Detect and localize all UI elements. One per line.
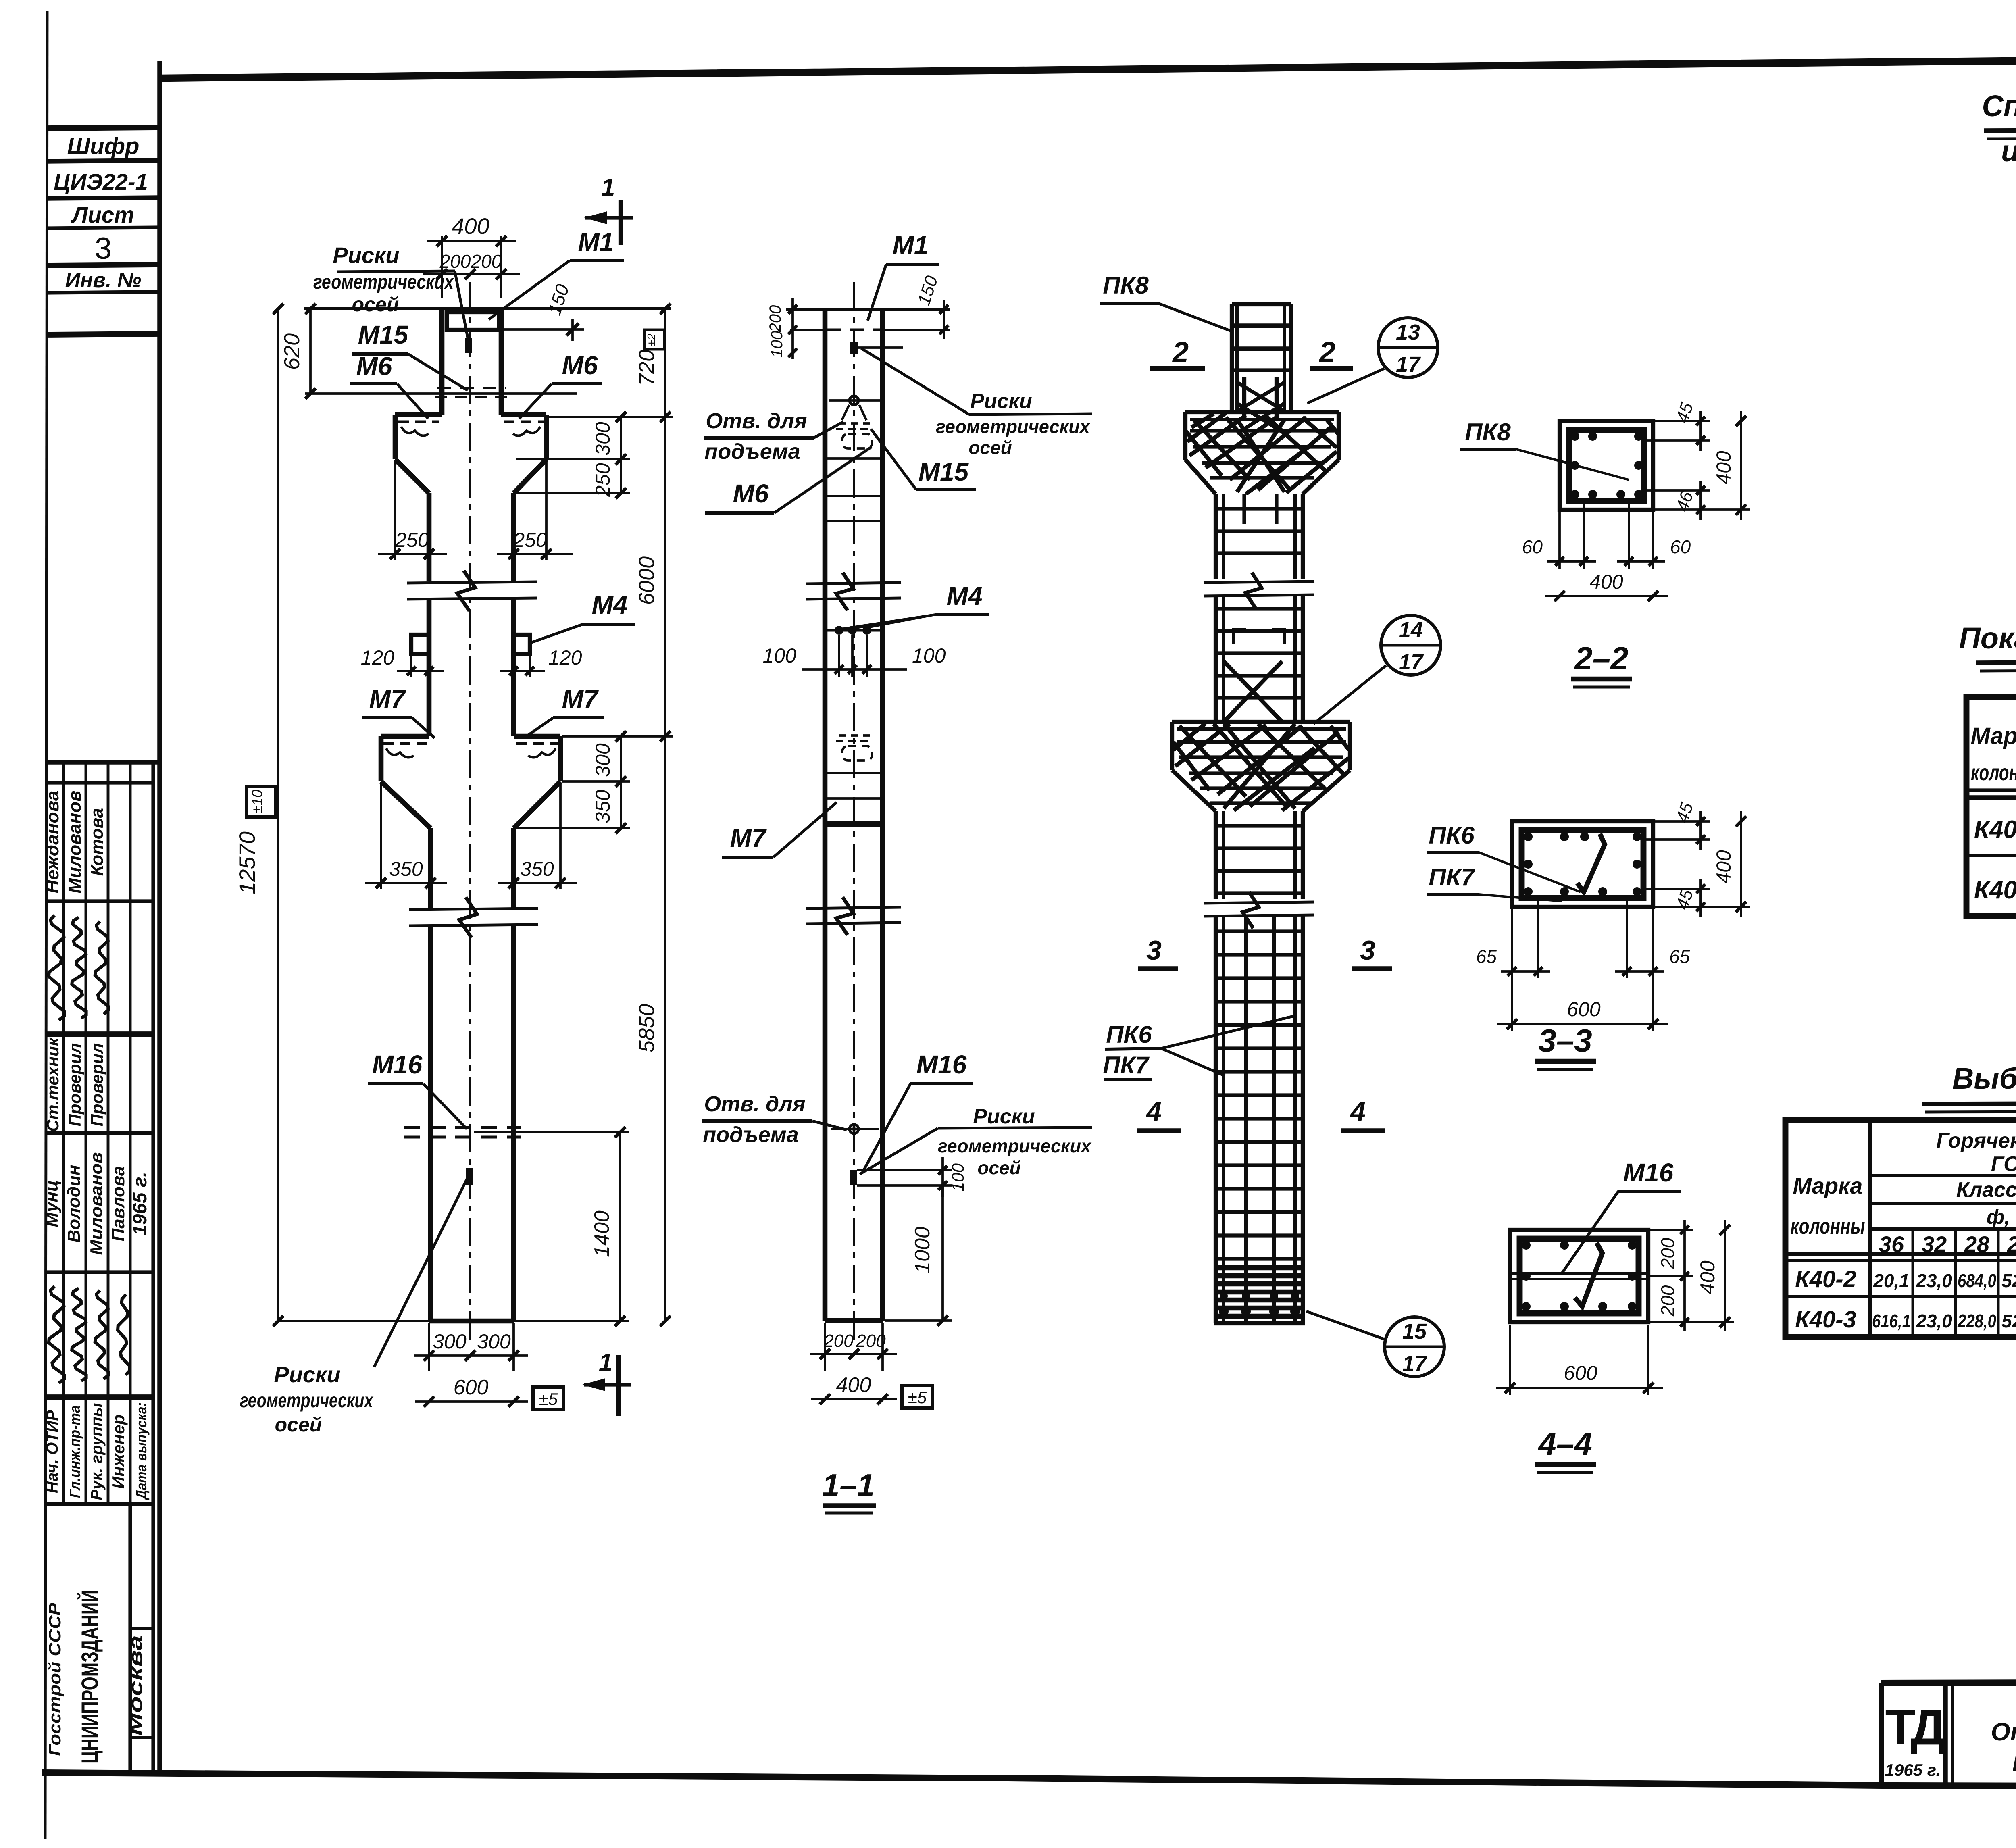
section 3-3 dim 400 right bbox=[1655, 906, 1750, 908]
section 4-4 bent bar bbox=[1575, 1243, 1602, 1306]
svg-text:Риски: Риски bbox=[274, 1362, 340, 1387]
rebar cage top outline bbox=[1232, 302, 1291, 306]
section 2-2 dim 400 bottom bbox=[1545, 595, 1668, 597]
svg-text:Шифр: Шифр bbox=[67, 133, 140, 159]
signature block band line bbox=[46, 1270, 153, 1274]
svg-text:Риски: Риски bbox=[970, 390, 1032, 413]
shaft below console 2 bbox=[428, 828, 433, 908]
svg-text:200: 200 bbox=[856, 1331, 886, 1351]
section 3-3 rebar dots bbox=[1524, 832, 1533, 841]
rebar ties middle bbox=[1216, 607, 1303, 610]
section 2-2 dim 400 right bbox=[1655, 508, 1750, 511]
dim 200 200 top bbox=[423, 273, 520, 275]
svg-text:400: 400 bbox=[836, 1373, 871, 1397]
svg-text:350: 350 bbox=[389, 858, 423, 880]
embed plate M4 left bbox=[411, 635, 429, 654]
dim 300 300 bottom bbox=[428, 1323, 430, 1371]
section 3-3 dim 600 bottom bbox=[1511, 978, 1513, 1031]
table 3 title underline bbox=[1922, 1102, 2016, 1104]
title block top border bbox=[1881, 1681, 2016, 1683]
svg-text:120: 120 bbox=[361, 646, 395, 669]
filled embed band bbox=[826, 821, 882, 827]
svg-text:600: 600 bbox=[1564, 1362, 1597, 1384]
svg-text:М4: М4 bbox=[947, 581, 983, 610]
lifting hole symbol top bbox=[850, 396, 858, 405]
svg-text:ф, мм: ф, мм bbox=[1987, 1206, 2016, 1228]
svg-text:100: 100 bbox=[763, 644, 797, 667]
svg-text:200: 200 bbox=[1657, 1285, 1678, 1317]
svg-text:осей: осей bbox=[968, 437, 1012, 458]
table 3 data row divider bbox=[1785, 1295, 2016, 1298]
rebar bottom hooks bbox=[1219, 1306, 1229, 1316]
rebar cage neck X bracing bbox=[1237, 382, 1285, 411]
table 2 title underline bbox=[1976, 661, 2016, 663]
svg-text:Нежданова: Нежданова bbox=[43, 791, 62, 894]
svg-text:65: 65 bbox=[1476, 946, 1497, 967]
section 4-4 M16 channel lines bbox=[1510, 1272, 1648, 1275]
dim 300 console2 right bbox=[562, 780, 630, 783]
column top edge with extension line bbox=[304, 307, 671, 310]
svg-text:2: 2 bbox=[1172, 336, 1189, 369]
svg-text:4: 4 bbox=[1350, 1096, 1366, 1127]
svg-text:М16: М16 bbox=[372, 1050, 423, 1079]
section 3-3 dim 45 top bbox=[1655, 820, 1710, 823]
svg-text:Опалубочный и арматурный черте: Опалубочный и арматурный чертежи. bbox=[1991, 1718, 2016, 1746]
leader to circle 14/17 bbox=[1314, 665, 1386, 724]
dim 120 left at M4 bbox=[410, 656, 412, 677]
console 2 top step bbox=[381, 734, 429, 739]
svg-text:ПК7: ПК7 bbox=[1103, 1052, 1150, 1079]
leader to circle 15/17 bbox=[1306, 1311, 1385, 1340]
section 4-4 dim 200 bottom bbox=[1650, 1275, 1693, 1277]
stamp divider bbox=[47, 198, 160, 198]
svg-text:1000: 1000 bbox=[911, 1227, 934, 1273]
Moskva cell top line bbox=[130, 1627, 153, 1630]
svg-text:осей: осей bbox=[977, 1157, 1020, 1178]
table 3 frame bbox=[1785, 1120, 2016, 1337]
rebar console 1 outline bbox=[1185, 410, 1339, 414]
neck extension line at 976 bbox=[305, 392, 577, 395]
svg-text:ПК6: ПК6 bbox=[1106, 1021, 1152, 1048]
dim 100 at risk mark bbox=[857, 1169, 952, 1171]
svg-text:1: 1 bbox=[601, 174, 615, 202]
section mark 1 top bbox=[619, 200, 623, 245]
section 2-2 outer square bbox=[1560, 421, 1653, 510]
svg-text:Госстрой СССР: Госстрой СССР bbox=[45, 1602, 64, 1756]
dim 720 right with tolerance box bbox=[664, 309, 666, 417]
svg-text:Володин: Володин bbox=[64, 1165, 84, 1243]
extension line console2 top right bbox=[562, 735, 673, 738]
svg-text:Проверил: Проверил bbox=[65, 1043, 84, 1127]
table 2 row divider col1 bbox=[1966, 854, 2016, 857]
signature block band line bbox=[46, 1131, 153, 1135]
column K40 front view outline top section bbox=[439, 309, 445, 415]
svg-text:Марка: Марка bbox=[1793, 1173, 1863, 1198]
stamp empty box bottom line bbox=[47, 334, 160, 335]
extension line console1 top right bbox=[548, 416, 673, 418]
rebar shaft middle segment bbox=[1214, 595, 1218, 722]
svg-text:Марка: Марка bbox=[1970, 723, 2016, 749]
svg-text:620: 620 bbox=[280, 333, 304, 370]
console 2 outer edges bbox=[379, 736, 384, 781]
svg-text:М6: М6 bbox=[356, 352, 392, 381]
dim 400 bottom side bbox=[811, 1398, 897, 1400]
svg-text:400: 400 bbox=[452, 213, 489, 239]
svg-text:подъема: подъема bbox=[703, 1123, 799, 1147]
column center axis bbox=[469, 282, 471, 1343]
embed M7 dashed marks bbox=[839, 734, 870, 737]
svg-text:3: 3 bbox=[1146, 935, 1162, 966]
signature block band line bbox=[46, 899, 153, 903]
table 1 title underline bbox=[1984, 129, 2016, 131]
dim 120 right at M4 bbox=[512, 656, 515, 677]
svg-text:120: 120 bbox=[548, 646, 582, 669]
svg-text:Показатели расхода материалов: Показатели расхода материалов bbox=[2012, 1749, 2016, 1777]
svg-text:Милованов: Милованов bbox=[87, 1152, 106, 1255]
svg-text:Горячекатаная арматурная ста: Горячекатаная арматурная сталь bbox=[1936, 1129, 2016, 1152]
dim 6000 right bbox=[664, 417, 666, 736]
svg-text:К40-2: К40-2 bbox=[1795, 1266, 1856, 1292]
svg-text:300: 300 bbox=[591, 422, 614, 456]
svg-text:17: 17 bbox=[1402, 1352, 1428, 1376]
svg-text:4–4: 4–4 bbox=[1537, 1426, 1592, 1462]
rebar shaft inner bars upper bbox=[1242, 494, 1246, 524]
tolerance box 5 side bbox=[902, 1385, 933, 1408]
svg-text:23,0: 23,0 bbox=[1916, 1310, 1952, 1331]
svg-text:200: 200 bbox=[766, 305, 784, 333]
dim 350 left below console2 bbox=[380, 784, 382, 889]
shaft between breaks bbox=[427, 598, 432, 736]
dim 600 bottom bbox=[415, 1400, 528, 1403]
svg-text:200: 200 bbox=[439, 251, 471, 272]
embed M1 dashed line bbox=[827, 329, 881, 331]
rebar console 2 reverse diagonals bbox=[1173, 724, 1349, 806]
svg-text:подъема: подъема bbox=[704, 440, 800, 464]
svg-text:350: 350 bbox=[591, 790, 614, 823]
signature block band line bbox=[46, 1502, 153, 1506]
rebar console 1 reverse diagonals bbox=[1186, 416, 1343, 490]
row dividers upper section bbox=[62, 762, 65, 1504]
signature block frame bbox=[46, 760, 160, 765]
svg-text:300: 300 bbox=[433, 1330, 467, 1353]
table 3 diameter dividers A-III bbox=[1912, 1229, 1914, 1337]
table 3 marka kolonny divider bbox=[1868, 1120, 1872, 1337]
embed plate M1 bbox=[447, 312, 499, 330]
section 3-3 outer rectangle bbox=[1512, 821, 1653, 907]
svg-text:20,1: 20,1 bbox=[1873, 1270, 1910, 1291]
left stamp column right border bbox=[157, 61, 162, 1774]
svg-text:1: 1 bbox=[599, 1349, 612, 1377]
section 3-3 bent bar bbox=[1577, 834, 1605, 892]
svg-text:Москва: Москва bbox=[125, 1635, 146, 1736]
svg-text:300: 300 bbox=[591, 743, 614, 777]
break symbol 2 bbox=[409, 908, 538, 910]
svg-text:720: 720 bbox=[635, 350, 659, 386]
svg-text:1400: 1400 bbox=[590, 1210, 614, 1257]
console 1 chamfers bbox=[395, 459, 429, 493]
tolerance box 5 bottom bbox=[533, 1387, 564, 1410]
svg-text:600: 600 bbox=[1567, 998, 1601, 1021]
section 3-3 dim 45 bottom bbox=[1645, 888, 1710, 890]
svg-text:4: 4 bbox=[1145, 1096, 1162, 1127]
svg-text:12570: 12570 bbox=[234, 831, 260, 894]
svg-text:250: 250 bbox=[591, 463, 614, 497]
svg-text:60: 60 bbox=[1522, 536, 1543, 557]
svg-text:М6: М6 bbox=[562, 351, 598, 380]
section 2-2 dim 46 bottom bbox=[1646, 489, 1710, 492]
callout circle 13/17 bbox=[1378, 318, 1438, 377]
svg-text:Риски: Риски bbox=[333, 242, 399, 268]
section mark 1 bottom bbox=[616, 1355, 621, 1416]
embed M16 dashed band bbox=[404, 1126, 521, 1129]
sheet left edge line bbox=[45, 11, 47, 1839]
thin tie line bbox=[825, 520, 883, 522]
section 4-4 dim 200 top bbox=[1650, 1229, 1693, 1231]
callout circle 15/17 bbox=[1385, 1317, 1444, 1377]
rebar console 2 horizontal bars bbox=[1177, 740, 1346, 744]
stamp divider bbox=[47, 227, 160, 228]
svg-text:Милованов: Милованов bbox=[65, 791, 85, 894]
svg-text:М15: М15 bbox=[358, 320, 409, 349]
console 2 chamfers bbox=[381, 781, 431, 828]
svg-text:Инженер: Инженер bbox=[109, 1415, 128, 1489]
svg-text:М7: М7 bbox=[730, 823, 767, 852]
svg-text:400: 400 bbox=[1712, 451, 1735, 485]
table 3 line under f mm bbox=[1870, 1227, 2016, 1231]
svg-text:52,4: 52,4 bbox=[2001, 1270, 2016, 1291]
dim 12570 left overall bbox=[277, 309, 279, 1321]
svg-text:52,4: 52,4 bbox=[2001, 1310, 2016, 1331]
rebar console 1 horizontal bars bbox=[1190, 429, 1334, 432]
svg-text:Выборка стали на одну ко: Выборка стали на одну колонну, кг bbox=[1952, 1062, 2016, 1095]
table 3 line under hot-rolled header bbox=[1870, 1174, 2016, 1177]
svg-text:200: 200 bbox=[823, 1331, 854, 1351]
svg-text:2–2: 2–2 bbox=[1574, 640, 1628, 676]
svg-text:250: 250 bbox=[513, 529, 547, 551]
signature block band line thick bbox=[46, 1394, 153, 1400]
svg-text:изделий на одну колонну: изделий на одну колонну bbox=[2001, 134, 2016, 168]
stamp divider bbox=[47, 160, 160, 161]
thin tie line bbox=[825, 797, 883, 800]
svg-text:ТД: ТД bbox=[1885, 1700, 1946, 1755]
rebar ties bottom segment bbox=[1216, 929, 1303, 933]
dim 250 console right lower bbox=[620, 459, 622, 493]
rebar shaft below console 1 bbox=[1214, 494, 1218, 579]
divider before Moskva cell bbox=[128, 1504, 132, 1774]
svg-text:Проверил: Проверил bbox=[87, 1043, 106, 1127]
svg-text:228,0: 228,0 bbox=[1957, 1310, 1996, 1331]
section 4-4 dim 400 right bbox=[1650, 1321, 1734, 1323]
svg-text:Рук. группы: Рук. группы bbox=[88, 1403, 106, 1500]
svg-text:Ст.техник: Ст.техник bbox=[43, 1037, 62, 1132]
rebar cage top ties bbox=[1232, 323, 1291, 328]
svg-text:3–3: 3–3 bbox=[1538, 1023, 1592, 1058]
shaft lower part bbox=[428, 925, 433, 1321]
Moskva cell bottom line bbox=[130, 1736, 153, 1739]
svg-text:ГОСТ 5781-61: ГОСТ 5781-61 bbox=[1991, 1152, 2016, 1176]
svg-text:100: 100 bbox=[912, 644, 946, 667]
side view top edge with extensions bbox=[786, 308, 950, 311]
svg-text:Нач. ОТИР: Нач. ОТИР bbox=[44, 1410, 61, 1493]
rebar console 1 diagonal hatch bbox=[1187, 413, 1338, 494]
svg-text:М4: М4 bbox=[592, 590, 628, 619]
dim 300 console right bbox=[620, 417, 622, 459]
svg-text:±5: ±5 bbox=[539, 1390, 558, 1408]
svg-text:М16: М16 bbox=[1623, 1158, 1674, 1187]
svg-text:684,0: 684,0 bbox=[1958, 1270, 1996, 1291]
svg-text:ПК6: ПК6 bbox=[1429, 822, 1475, 849]
svg-text:Риски: Риски bbox=[973, 1105, 1035, 1128]
axis risk mark top side view bbox=[850, 342, 858, 354]
svg-text:осей: осей bbox=[275, 1413, 322, 1436]
rebar break 2 bbox=[1204, 902, 1314, 903]
lifting hole dashed outline bbox=[842, 434, 872, 448]
rebar cage X in console 2 above bbox=[1224, 661, 1282, 722]
svg-text:200: 200 bbox=[471, 251, 502, 272]
dim 200 200 bottom side bbox=[824, 1323, 826, 1371]
dim 150 top right side view bbox=[943, 300, 945, 339]
svg-text:М6: М6 bbox=[733, 479, 769, 508]
side view center axis bbox=[853, 282, 855, 1343]
svg-text:Класс А-Ⅲ: Класс А-Ⅲ bbox=[1956, 1178, 2016, 1202]
section 2-2 dim 60 60 bbox=[1558, 511, 1561, 569]
svg-text:200: 200 bbox=[1657, 1238, 1678, 1269]
svg-text:1–1: 1–1 bbox=[822, 1467, 875, 1503]
top frame border bbox=[160, 55, 2016, 78]
svg-text:геометрических: геометрических bbox=[240, 1389, 374, 1412]
svg-text:К40-3: К40-3 bbox=[1974, 876, 2016, 904]
svg-text:17: 17 bbox=[1396, 352, 1421, 377]
section 2-2 dim 45 top bbox=[1655, 420, 1710, 422]
svg-text:Инв. №: Инв. № bbox=[65, 269, 142, 292]
callout circle 14/17 bbox=[1381, 615, 1441, 675]
svg-text:100: 100 bbox=[768, 331, 786, 358]
svg-text:13: 13 bbox=[1396, 320, 1420, 344]
section 4-4 stirrup bbox=[1520, 1239, 1639, 1313]
svg-text:1965 г.: 1965 г. bbox=[1885, 1760, 1941, 1779]
dim 620 left bbox=[309, 309, 312, 394]
rebar inner bars bottom segment bbox=[1244, 915, 1248, 1323]
signature block band line thick bbox=[46, 1031, 153, 1037]
svg-text:Спецификация марок арматурны: Спецификация марок арматурных bbox=[1982, 89, 2016, 123]
svg-text:М15: М15 bbox=[918, 457, 969, 486]
dim 5850 right bbox=[664, 736, 666, 1321]
svg-text:геометрических: геометрических bbox=[313, 271, 454, 293]
svg-text:400: 400 bbox=[1589, 571, 1623, 593]
svg-text:Мунц: Мунц bbox=[42, 1180, 62, 1227]
rebar shaft bottom segment bbox=[1214, 915, 1218, 1323]
svg-text:65: 65 bbox=[1669, 946, 1690, 967]
rebar bottom anchorage dense zone bbox=[1214, 1265, 1304, 1271]
svg-text:Гл.инж.пр-та: Гл.инж.пр-та bbox=[67, 1405, 83, 1498]
stamp divider thick bbox=[47, 265, 160, 265]
svg-text:осей: осей bbox=[352, 293, 399, 316]
table 2 frame bbox=[1966, 697, 2016, 916]
svg-text:3: 3 bbox=[1360, 935, 1375, 966]
svg-text:колонны: колонны bbox=[1971, 760, 2016, 785]
axis risk mark bottom side view bbox=[850, 1170, 857, 1185]
svg-text:300: 300 bbox=[477, 1330, 511, 1353]
svg-text:ЦИЭ22-1: ЦИЭ22-1 bbox=[54, 169, 148, 194]
embed dashed marks at neck bbox=[839, 422, 870, 425]
svg-text:Дата выпуска:: Дата выпуска: bbox=[133, 1402, 150, 1500]
svg-text:М1: М1 bbox=[578, 227, 614, 256]
svg-text:Отв. для: Отв. для bbox=[704, 1092, 805, 1116]
rebar ties below console 2 bbox=[1216, 824, 1303, 827]
stamp box top line bbox=[47, 127, 160, 128]
dim 200 100 top left side view bbox=[791, 298, 794, 359]
svg-text:60: 60 bbox=[1670, 536, 1691, 557]
dim 100 100 at M4 dots bbox=[838, 635, 840, 677]
svg-text:±5: ±5 bbox=[908, 1388, 927, 1407]
rebar console 2 outline bbox=[1172, 720, 1350, 724]
section 4-4 rebar dots bbox=[1522, 1241, 1531, 1250]
lifting hole symbol bottom bbox=[850, 1125, 858, 1133]
thin tie line bbox=[825, 772, 883, 774]
bottom frame border bbox=[42, 1773, 2016, 1787]
column bottom edge bbox=[429, 1319, 514, 1324]
dim 250 right below console1 bbox=[545, 461, 548, 560]
axis risk mark top bbox=[465, 338, 472, 353]
leader to circle 13/17 bbox=[1307, 369, 1384, 403]
dim 1000 bottom right bbox=[941, 1185, 944, 1321]
svg-text:Котова: Котова bbox=[87, 808, 107, 876]
svg-text:5850: 5850 bbox=[635, 1004, 659, 1052]
svg-text:геометрических: геометрических bbox=[936, 416, 1091, 437]
break symbol side view 1 bbox=[806, 583, 901, 584]
svg-text:ЦНИИПРОМЗДАНИЙ: ЦНИИПРОМЗДАНИЙ bbox=[77, 1590, 103, 1763]
dim 400 top bbox=[441, 236, 443, 298]
svg-text:1965 г.: 1965 г. bbox=[129, 1172, 151, 1235]
stamp divider bbox=[47, 292, 160, 293]
svg-text:Показатели на одну колонну: Показатели на одну колонну bbox=[1959, 621, 2016, 655]
thin tie line bbox=[825, 457, 883, 460]
signatures row 2 bbox=[49, 1286, 64, 1383]
console 1 outer edges bbox=[393, 415, 398, 459]
rebar cage neck inner bars bbox=[1242, 377, 1246, 419]
rebar splice angle marks bbox=[1234, 630, 1246, 644]
svg-text:±10: ±10 bbox=[249, 790, 265, 814]
svg-text:М1: М1 bbox=[893, 231, 929, 260]
column side view 1-1 outline bbox=[823, 309, 828, 1321]
hole M7 dashed outline bbox=[842, 746, 872, 760]
svg-text:±2: ±2 bbox=[645, 333, 658, 346]
section 4-4 outer rectangle bbox=[1510, 1230, 1648, 1322]
svg-text:К40-2: К40-2 bbox=[1974, 816, 2016, 844]
table 3 line under class row bbox=[1870, 1202, 2016, 1205]
svg-text:250: 250 bbox=[395, 529, 429, 551]
svg-text:М7: М7 bbox=[562, 685, 599, 714]
svg-text:600: 600 bbox=[454, 1376, 489, 1399]
svg-text:М16: М16 bbox=[916, 1050, 967, 1079]
svg-text:400: 400 bbox=[1696, 1260, 1719, 1294]
signatures row 1 bbox=[49, 915, 64, 1020]
svg-text:3: 3 bbox=[95, 231, 112, 266]
title block TD logo box bbox=[1879, 1683, 1884, 1786]
signature block band line bbox=[46, 781, 153, 784]
svg-text:15: 15 bbox=[1402, 1319, 1427, 1344]
svg-text:Лист: Лист bbox=[71, 202, 134, 227]
thin tie line bbox=[825, 495, 883, 497]
rebar cage bottom edge bbox=[1214, 1321, 1305, 1325]
svg-text:ПК7: ПК7 bbox=[1429, 864, 1475, 891]
dim 150 top right bbox=[501, 328, 584, 331]
rebar break 1 bbox=[1204, 581, 1314, 583]
dim 250 left below console1 bbox=[394, 461, 396, 560]
svg-text:400: 400 bbox=[1712, 850, 1735, 884]
section 2-2 rebar dots bbox=[1570, 432, 1579, 441]
svg-text:геометрических: геометрических bbox=[938, 1135, 1092, 1156]
